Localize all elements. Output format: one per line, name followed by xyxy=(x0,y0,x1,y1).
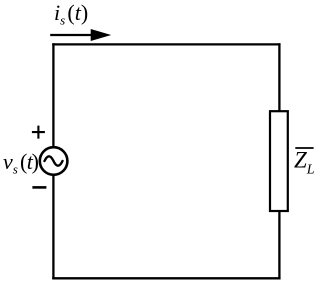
voltage source VS circle xyxy=(40,147,68,175)
current arrow head xyxy=(91,29,112,41)
load impedance ZL box xyxy=(270,111,288,211)
wire right xyxy=(278,43,280,279)
label ZL overline xyxy=(295,147,313,149)
svg-text:vs(t): vs(t) xyxy=(3,149,39,177)
wire bottom xyxy=(52,277,280,279)
svg-text:is(t): is(t) xyxy=(54,0,88,28)
wire left xyxy=(52,43,54,279)
voltage source sine wave xyxy=(45,156,63,165)
wire top xyxy=(52,43,280,45)
polarity minus xyxy=(32,186,46,189)
svg-text:ZL: ZL xyxy=(294,148,315,178)
current arrow shaft xyxy=(50,34,93,36)
polarity plus xyxy=(32,126,45,139)
